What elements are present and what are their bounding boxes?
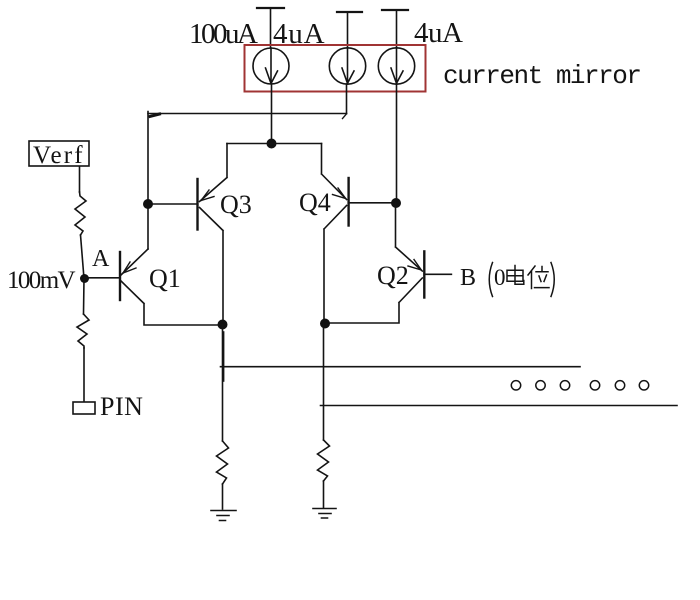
wire I1 output down to top node — [271, 84, 273, 144]
supply bar T2 — [337, 12, 362, 48]
glyph 位 — [528, 266, 549, 289]
resistor R3 — [217, 441, 229, 484]
current mirror red box — [245, 45, 426, 92]
svg-text:Verf: Verf — [33, 142, 85, 169]
transistor Q2 — [325, 203, 451, 323]
wire node A to R2 — [83, 279, 86, 315]
svg-text:0: 0 — [494, 265, 506, 290]
node A — [80, 274, 89, 283]
wire I3 output down to Q4 base node — [396, 84, 398, 203]
arrow blob on rail left end — [150, 114, 160, 116]
ground G2 — [313, 509, 336, 519]
svg-text:PIN: PIN — [100, 392, 143, 421]
current source I2 4uA — [329, 48, 365, 84]
svg-text:current mirror: current mirror — [443, 61, 640, 91]
wire horizontal line A — [221, 366, 581, 368]
wire R3 to ground — [222, 484, 224, 509]
wire R4 to ground — [323, 481, 325, 508]
node top center — [267, 139, 277, 149]
svg-text:100mV: 100mV — [7, 267, 76, 294]
resistor R4 — [318, 440, 330, 481]
svg-text:Q3: Q3 — [220, 190, 252, 219]
wire I2 output down to base rail — [346, 84, 348, 114]
transistor Q3 — [148, 144, 227, 325]
wire left column x=148 — [147, 112, 149, 250]
svg-text:Q4: Q4 — [299, 188, 331, 217]
supply bar T1 — [257, 8, 284, 48]
node left collector junction — [218, 320, 228, 330]
wire Verf to R1 — [79, 167, 81, 193]
Verf box — [29, 141, 89, 166]
arrow tick at I2 drop end — [343, 114, 347, 119]
svg-text:B: B — [460, 265, 476, 291]
node Q3 base — [143, 199, 153, 209]
wire left tail vertical — [222, 325, 224, 442]
svg-text:Q1: Q1 — [149, 264, 181, 293]
node Q4 base — [391, 198, 401, 208]
PIN box — [73, 402, 95, 414]
wire horizontal line B — [321, 405, 678, 407]
ground G1 — [211, 511, 236, 521]
current source I3 4uA — [378, 48, 414, 84]
resistor R2 — [77, 314, 89, 348]
svg-text:A: A — [92, 246, 110, 272]
wire base rail y=113.5 — [148, 113, 347, 115]
label B (0电位) — [460, 263, 554, 297]
resistor R1 — [75, 192, 86, 235]
node right collector junction — [320, 319, 330, 329]
bold overlap on left tail — [223, 332, 225, 381]
wire emitter rail y=143.5 — [227, 143, 322, 145]
current source I1 100uA — [253, 48, 289, 84]
svg-text:Q2: Q2 — [377, 261, 409, 290]
transistor Q4 — [322, 144, 397, 324]
wire R2 to PIN — [83, 348, 85, 402]
wire R1 to node A — [81, 235, 85, 279]
connector circles row — [511, 381, 648, 390]
transistor Q1 — [85, 249, 223, 325]
supply bar T3 — [382, 10, 408, 48]
glyph 电 — [507, 266, 524, 285]
wire right tail vertical — [323, 324, 325, 441]
